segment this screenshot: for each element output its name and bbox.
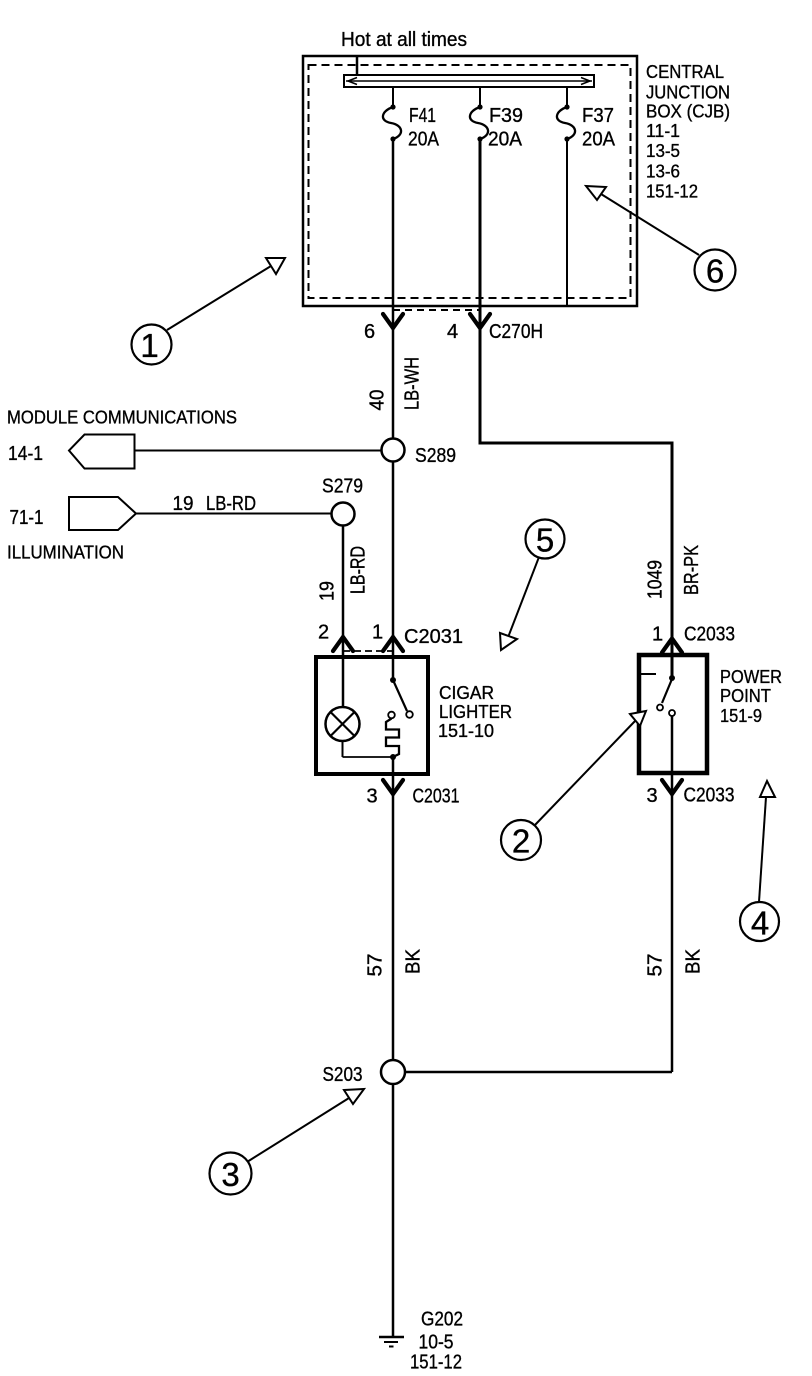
svg-text:20A: 20A xyxy=(488,129,523,151)
svg-text:151-12: 151-12 xyxy=(646,181,698,202)
svg-text:F41: F41 xyxy=(409,105,436,127)
svg-text:1: 1 xyxy=(140,327,158,364)
svg-text:3: 3 xyxy=(367,786,378,808)
svg-text:20A: 20A xyxy=(582,129,616,151)
svg-text:MODULE COMMUNICATIONS: MODULE COMMUNICATIONS xyxy=(7,407,237,428)
svg-text:4: 4 xyxy=(751,905,769,942)
svg-text:1: 1 xyxy=(372,622,383,644)
svg-text:2: 2 xyxy=(512,823,530,860)
svg-text:151-12: 151-12 xyxy=(410,1352,462,1374)
svg-text:10-5: 10-5 xyxy=(419,1332,454,1354)
svg-text:BK: BK xyxy=(403,948,425,974)
svg-text:57: 57 xyxy=(365,954,387,977)
svg-text:3: 3 xyxy=(647,785,658,807)
svg-text:151-9: 151-9 xyxy=(720,705,762,726)
svg-text:40: 40 xyxy=(367,390,389,411)
svg-text:C2033: C2033 xyxy=(684,624,735,646)
svg-text:4: 4 xyxy=(447,321,458,343)
svg-text:6: 6 xyxy=(364,321,375,343)
svg-text:Hot at all times: Hot at all times xyxy=(341,29,467,51)
svg-text:ILLUMINATION: ILLUMINATION xyxy=(7,542,124,563)
svg-text:F37: F37 xyxy=(582,105,614,127)
svg-text:C2033: C2033 xyxy=(684,785,735,807)
svg-text:3: 3 xyxy=(221,1156,239,1193)
svg-text:19: 19 xyxy=(173,493,194,515)
svg-text:G202: G202 xyxy=(421,1309,463,1331)
svg-text:14-1: 14-1 xyxy=(8,443,43,465)
svg-text:1049: 1049 xyxy=(645,560,667,599)
svg-text:CENTRAL: CENTRAL xyxy=(646,61,724,82)
svg-text:S203: S203 xyxy=(323,1064,363,1086)
svg-text:BOX (CJB): BOX (CJB) xyxy=(646,101,730,122)
svg-text:2: 2 xyxy=(318,622,329,644)
svg-text:C2031: C2031 xyxy=(413,786,460,808)
svg-text:13-5: 13-5 xyxy=(646,140,680,161)
svg-text:19: 19 xyxy=(317,581,339,601)
svg-text:POWER: POWER xyxy=(720,666,782,687)
svg-text:1: 1 xyxy=(652,624,663,646)
svg-text:LB-WH: LB-WH xyxy=(402,357,424,410)
svg-text:LB-RD: LB-RD xyxy=(348,546,370,594)
svg-text:POINT: POINT xyxy=(720,685,771,706)
svg-text:20A: 20A xyxy=(408,129,440,151)
svg-text:BK: BK xyxy=(683,948,705,974)
svg-text:6: 6 xyxy=(706,253,724,290)
svg-text:57: 57 xyxy=(645,954,667,977)
svg-text:F39: F39 xyxy=(489,105,523,127)
svg-text:5: 5 xyxy=(536,522,554,559)
svg-text:151-10: 151-10 xyxy=(438,720,494,741)
svg-text:CIGAR: CIGAR xyxy=(439,682,494,703)
svg-text:S279: S279 xyxy=(322,476,363,498)
svg-text:BR-PK: BR-PK xyxy=(681,544,703,595)
svg-text:S289: S289 xyxy=(415,445,456,467)
svg-text:C270H: C270H xyxy=(489,321,543,343)
svg-text:JUNCTION: JUNCTION xyxy=(646,82,730,103)
svg-text:LB-RD: LB-RD xyxy=(206,493,256,515)
svg-text:13-6: 13-6 xyxy=(646,161,680,182)
svg-text:C2031: C2031 xyxy=(404,626,463,648)
svg-text:71-1: 71-1 xyxy=(10,507,44,529)
svg-text:LIGHTER: LIGHTER xyxy=(439,701,512,722)
svg-text:11-1: 11-1 xyxy=(646,120,680,141)
